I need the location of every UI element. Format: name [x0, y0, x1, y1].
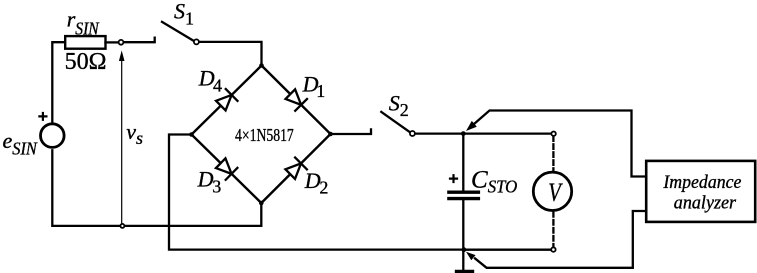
svg-text:analyzer: analyzer [674, 192, 737, 213]
svg-text:Impedance: Impedance [662, 172, 741, 193]
svg-text:4×1N5817: 4×1N5817 [235, 125, 294, 145]
svg-text:50Ω: 50Ω [65, 49, 107, 75]
